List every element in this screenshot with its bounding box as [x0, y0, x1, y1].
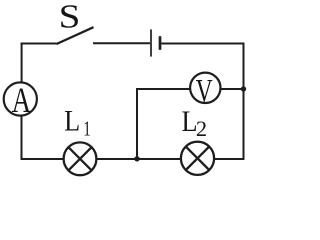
wire ammeter to bottom-left corner [21, 116, 23, 160]
wire battery to top-right corner [161, 43, 244, 45]
junction node (voltmeter tap on bottom wire) [134, 156, 139, 161]
svg-text:S: S [59, 0, 81, 35]
battery cell [151, 29, 160, 56]
wire bottom-left segment (corner to lamp L1) [21, 158, 65, 160]
svg-text:A: A [12, 80, 32, 120]
wire top-left horizontal (corner to switch pivot) [21, 43, 57, 45]
ammeter A [4, 80, 37, 120]
voltmeter V [190, 73, 220, 110]
svg-text:V: V [196, 74, 213, 110]
svg-text:L: L [64, 105, 80, 138]
wire right wall vertical [243, 43, 245, 161]
wire bottom-right segment (L2 to corner) [214, 158, 244, 160]
wire voltmeter branch horizontal left [136, 88, 190, 90]
wire voltmeter to right wall [220, 88, 243, 90]
wire switch contact to battery [93, 42, 150, 44]
svg-text:2: 2 [196, 116, 207, 141]
wire bottom middle segment (L1 to L2) [96, 158, 181, 160]
switch S blade [57, 27, 94, 44]
junction node (voltmeter on right wall) [241, 86, 246, 91]
label L2 [181, 106, 207, 141]
lamp L1 [64, 142, 97, 175]
wire voltmeter branch vertical [136, 88, 138, 158]
lamp L2 [181, 142, 214, 175]
wire left vertical upper (corner down to ammeter) [21, 43, 23, 83]
svg-text:1: 1 [83, 117, 90, 140]
label L1 [64, 105, 90, 140]
